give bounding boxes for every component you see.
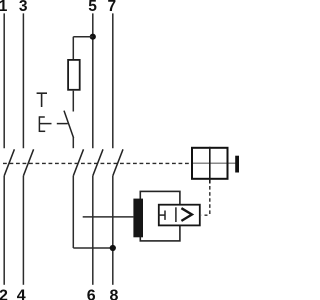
svg-text:8: 8 (109, 288, 118, 300)
relay symbol input bar (164, 211, 166, 220)
contact blade test path (73, 149, 83, 176)
wire pole 3-4 upper (22, 13, 24, 148)
label T (test button) (37, 93, 47, 107)
wire pole 3-4 lower (22, 176, 24, 285)
resistor R (test resistor) (68, 60, 80, 90)
mechanical linkage dashed line (3, 162, 191, 164)
relay symbol divider (175, 207, 177, 222)
contact blade pole 7-8 (113, 149, 123, 176)
wire pole 5-6 upper (92, 13, 94, 148)
mechanism latch box (192, 148, 228, 179)
wire pole 7-8 lower (112, 176, 114, 285)
CT primary wire (83, 216, 134, 218)
svg-text:4: 4 (17, 288, 26, 300)
svg-text:5: 5 (88, 0, 97, 15)
svg-text:6: 6 (87, 288, 96, 300)
pushbutton actuator (E shape) (39, 116, 51, 132)
contact blade pole 5-6 (93, 149, 103, 176)
node on line 5 (test tap junction) (90, 34, 96, 40)
mechanical link button to test contact (dash) (57, 123, 68, 125)
contact blade pole 3-4 (23, 149, 33, 176)
wire test switch to main contact (72, 138, 74, 149)
wire test tap horizontal (73, 36, 93, 38)
trip relay box (159, 205, 200, 226)
svg-text:3: 3 (19, 0, 28, 15)
CT core (toroid) (133, 199, 143, 238)
test pushbutton contact blade (64, 111, 74, 138)
CT secondary loop (140, 191, 180, 241)
svg-text:1: 1 (0, 0, 8, 15)
contact blade pole 1-2 (4, 149, 14, 176)
wire test column lower (72, 176, 74, 248)
relay symbol input lead (158, 214, 165, 216)
wire pole 1-2 lower (3, 176, 5, 285)
mechanical linkage dash to relay (202, 214, 208, 216)
mechanism box divider (209, 147, 211, 184)
manual actuator bar (235, 156, 240, 173)
wire test column to resistor (72, 37, 74, 59)
wire pole 7-8 upper (112, 13, 114, 148)
svg-text:2: 2 (0, 288, 8, 300)
wire pole 1-2 upper (3, 13, 5, 148)
wire test return to line 8 (73, 247, 113, 249)
node on line 8 (test return junction) (110, 245, 116, 251)
wire resistor to test switch (72, 91, 74, 112)
mechanical linkage dashed vertical (209, 186, 211, 215)
svg-text:7: 7 (107, 0, 116, 15)
relay symbol threshold > (181, 208, 192, 221)
wire pole 5-6 lower (92, 176, 94, 285)
mechanism link line through latch box (191, 162, 236, 164)
